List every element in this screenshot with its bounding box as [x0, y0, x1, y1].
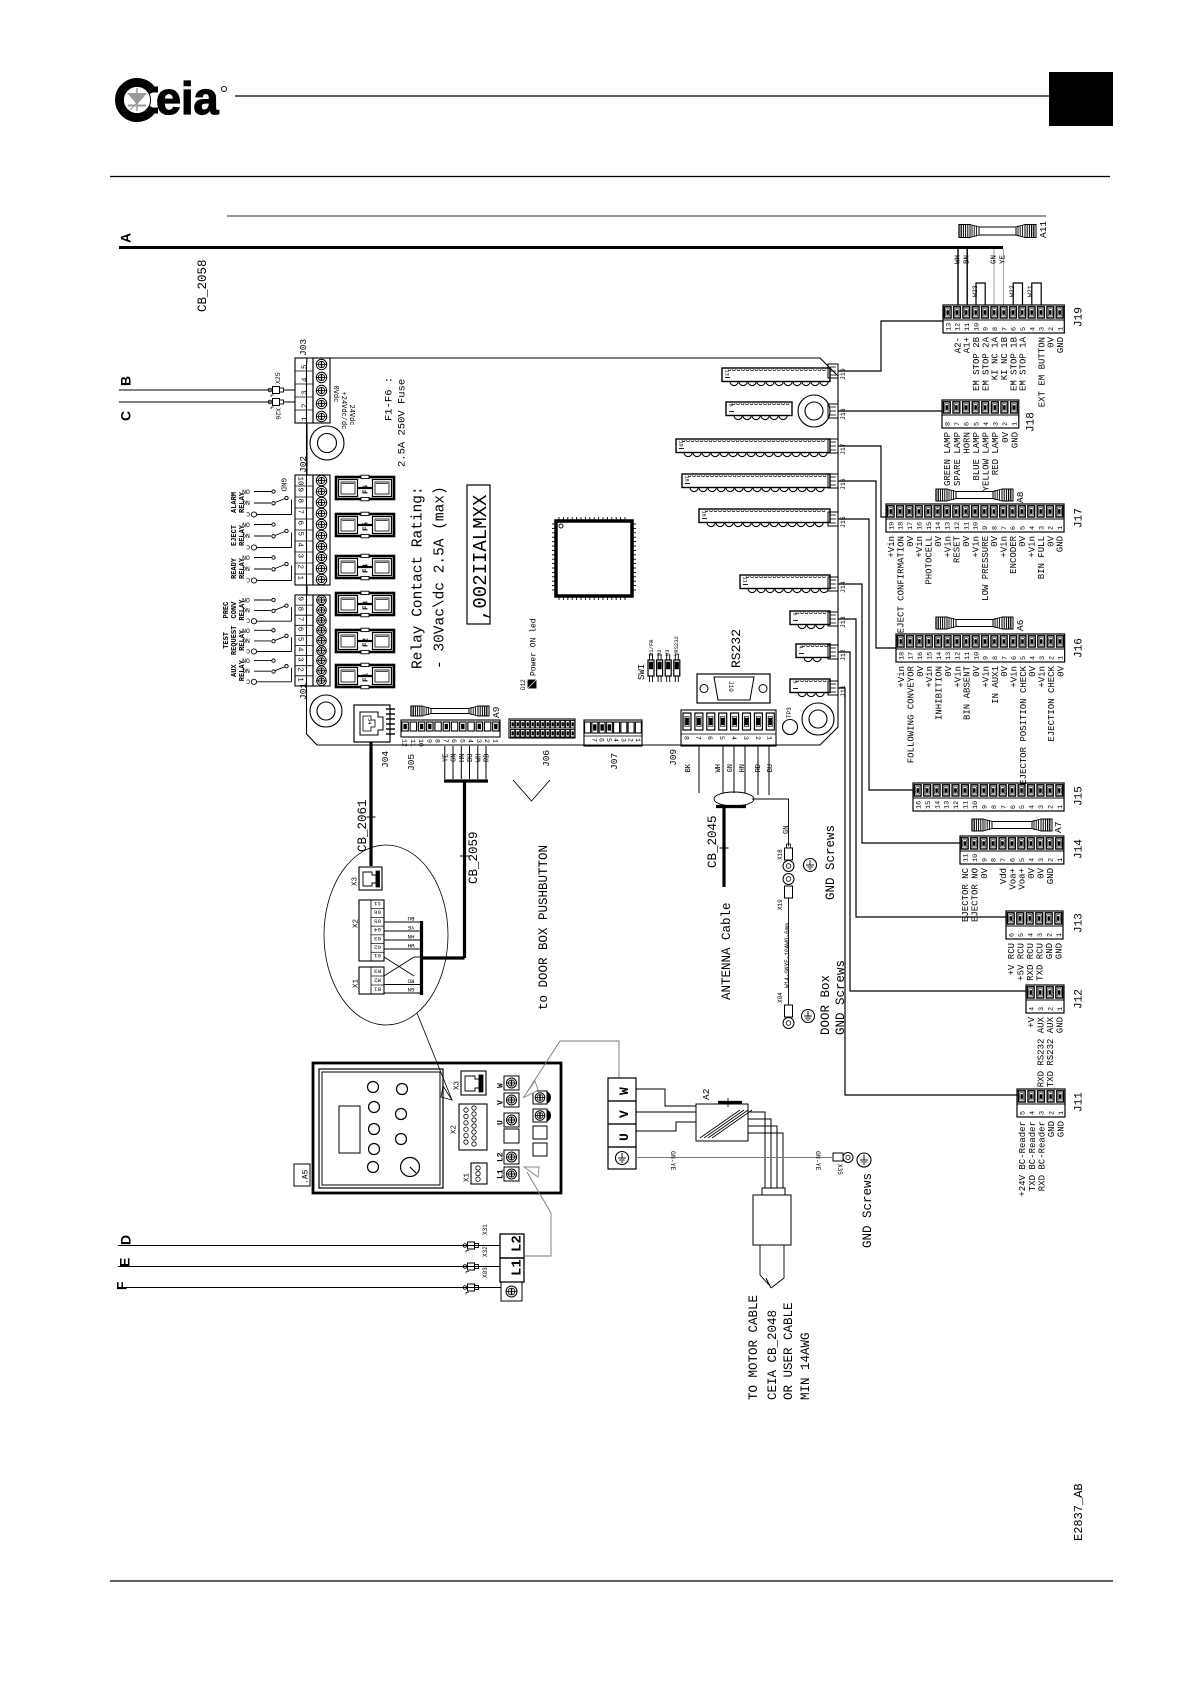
svg-text:V: V: [497, 1100, 506, 1105]
svg-text:RD: RD: [484, 754, 492, 762]
jumper W21: [1027, 283, 1041, 305]
svg-text:9: 9: [296, 597, 304, 602]
svg-text:RXD RCU: RXD RCU: [1026, 943, 1036, 981]
svg-text:2: 2: [754, 736, 761, 740]
wire GN to J19: [990, 249, 998, 305]
svg-text:M2: M2: [656, 649, 663, 656]
board edge tag J18: [828, 404, 847, 420]
svg-text:24Vdc: 24Vdc: [347, 405, 355, 426]
fuse F1: [336, 663, 394, 689]
svg-text:11: 11: [409, 739, 416, 747]
svg-text:1: 1: [296, 576, 304, 581]
wire J02 to J01: [306, 585, 308, 595]
wire BN from bus A to J19: [963, 249, 971, 305]
svg-text:10: 10: [296, 477, 304, 487]
connector X25: [268, 372, 283, 397]
svg-text:18: 18: [898, 522, 906, 530]
svg-text:+V RCU: +V RCU: [1007, 943, 1017, 975]
svg-text:5: 5: [973, 422, 981, 426]
svg-text:3: 3: [992, 422, 1000, 426]
microcontroller chip U1: [552, 517, 636, 600]
svg-text:GND Screws: GND Screws: [861, 1173, 875, 1248]
svg-text:0V: 0V: [1056, 665, 1066, 676]
svg-text:6: 6: [1010, 526, 1018, 530]
svg-text:DOOR Box: DOOR Box: [819, 975, 833, 1035]
svg-text:3: 3: [1039, 1111, 1047, 1115]
svg-text:8: 8: [944, 422, 952, 426]
svg-text:5: 5: [1019, 858, 1027, 862]
svg-text:AUX: AUX: [231, 664, 239, 677]
wire bus to CB_2059: [422, 956, 465, 959]
svg-text:8: 8: [991, 805, 999, 809]
svg-text:HORN: HORN: [962, 432, 972, 454]
connector X26: [268, 399, 283, 420]
connector X1 in ellipse: [352, 967, 384, 994]
svg-text:GN: GN: [407, 986, 414, 993]
connector J13 on-board: [790, 611, 830, 629]
svg-text:L2: L2: [497, 1152, 506, 1162]
wire J16 edge to block: [838, 481, 896, 648]
svg-text:5: 5: [1020, 327, 1028, 331]
connector J07 pin row: [584, 720, 642, 770]
wire B line: [119, 389, 271, 391]
svg-text:RELAY: RELAY: [239, 524, 247, 546]
svg-text:01: 01: [374, 952, 381, 959]
svg-text:+24Vdc/dc: +24Vdc/dc: [339, 392, 347, 430]
svg-text:EJECTOR POSITION CHECK: EJECTOR POSITION CHECK: [1019, 665, 1029, 784]
wire J12 edge to block: [838, 652, 1026, 991]
svg-text:WH: WH: [715, 764, 723, 772]
svg-text:5: 5: [718, 736, 725, 740]
svg-text:J07: J07: [609, 753, 620, 770]
svg-text:1: 1: [1056, 933, 1064, 937]
svg-text:2: 2: [296, 667, 304, 672]
svg-text:WH: WH: [954, 255, 962, 264]
wire J18 edge to block: [838, 410, 942, 412]
svg-text:FOLLOWING CONVEYOR: FOLLOWING CONVEYOR: [906, 665, 916, 763]
plug X32: [463, 1246, 489, 1274]
svg-text:F5: F5: [362, 521, 370, 531]
connector J17 on-board: [676, 439, 830, 457]
svg-text:1: 1: [301, 416, 309, 421]
svg-text:2: 2: [1046, 933, 1054, 937]
svg-text:15: 15: [926, 522, 934, 530]
svg-text:SPARE LAMP: SPARE LAMP: [953, 432, 963, 486]
svg-text:4: 4: [1028, 858, 1036, 862]
svg-text:GN: GN: [783, 826, 791, 834]
svg-text:2: 2: [1048, 805, 1056, 809]
terminal block J03: [295, 339, 330, 423]
svg-text:EJECT: EJECT: [231, 525, 239, 546]
svg-text:J14: J14: [1074, 839, 1086, 859]
wire J11 edge to block: [838, 688, 1017, 1095]
svg-text:+5V RCU: +5V RCU: [1017, 943, 1027, 981]
svg-text:RD: RD: [407, 977, 414, 984]
svg-text:J19: J19: [840, 368, 847, 380]
wires X2 X1 to bus with labels: [384, 915, 421, 993]
svg-text:ALARM: ALARM: [231, 492, 239, 513]
wire J03 to J02: [306, 423, 308, 475]
svg-text:3: 3: [1037, 933, 1045, 937]
svg-text:F: F: [113, 1281, 129, 1290]
wire E line: [118, 1266, 479, 1268]
svg-text:W21: W21: [1027, 285, 1034, 297]
svg-text:- 30Vac\dc 2.5A (max): - 30Vac\dc 2.5A (max): [433, 486, 449, 669]
wire L1L2 to A5: [524, 1172, 551, 1256]
svg-text:RELAY: RELAY: [239, 659, 247, 681]
svg-text:U: U: [617, 1133, 632, 1141]
svg-text:GN-YE: GN-YE: [814, 1151, 821, 1171]
svg-text:2: 2: [1048, 1111, 1056, 1115]
svg-text:A: A: [117, 233, 133, 243]
svg-text:7: 7: [1001, 526, 1009, 530]
svg-text:0V: 0V: [1001, 431, 1011, 442]
connector J18 on-board: [726, 402, 792, 420]
svg-text:4: 4: [296, 647, 304, 652]
ribbon cable A9: [411, 706, 502, 718]
label TO MOTOR CABLE: [747, 1295, 813, 1400]
svg-text:3: 3: [296, 554, 304, 559]
svg-text:1: 1: [491, 739, 498, 743]
svg-text:J09: J09: [668, 749, 679, 766]
svg-text:2: 2: [627, 738, 634, 742]
svg-text:L1: L1: [497, 1169, 506, 1179]
svg-text:15: 15: [926, 652, 934, 660]
svg-text:9: 9: [982, 526, 990, 530]
svg-text:GND: GND: [1045, 943, 1055, 959]
svg-text:5: 5: [1020, 656, 1028, 660]
svg-text:YE: YE: [999, 254, 1007, 264]
svg-text:10: 10: [972, 801, 980, 809]
svg-text:J10: J10: [727, 681, 734, 692]
svg-text:EJECT CONFIRMATION: EJECT CONFIRMATION: [896, 536, 906, 633]
svg-text:06: 06: [374, 909, 381, 916]
svg-text:16: 16: [916, 522, 924, 530]
fuse F3: [336, 591, 394, 617]
svg-text:C: C: [117, 411, 133, 421]
svg-text:Power ON led: Power ON led: [530, 618, 539, 676]
svg-text:GND: GND: [279, 478, 287, 492]
svg-text:4: 4: [1027, 933, 1035, 937]
relay contacts READY RELAY: [231, 553, 291, 583]
svg-text:W22: W22: [1009, 285, 1016, 297]
svg-text:12: 12: [954, 522, 962, 530]
wire C line: [119, 401, 271, 403]
svg-text:11: 11: [963, 522, 971, 530]
svg-text:J11: J11: [840, 685, 847, 697]
connector X2 on A5: [450, 1104, 487, 1150]
terminal strip J17: [886, 504, 1086, 633]
test point TP3: [783, 707, 798, 735]
svg-text:7: 7: [954, 422, 962, 426]
svg-text:14: 14: [935, 522, 943, 530]
gnd screw X18: [777, 844, 794, 872]
svg-text:J03: J03: [298, 339, 309, 356]
svg-text:18: 18: [898, 652, 906, 660]
svg-text:X18: X18: [777, 849, 784, 860]
svg-text:F6: F6: [362, 484, 370, 494]
fuse F4: [336, 554, 394, 580]
svg-text:5: 5: [296, 637, 304, 642]
svg-text:Relay Contact Rating:: Relay Contact Rating:: [411, 486, 427, 669]
wire stub X31 to L2: [479, 1245, 500, 1247]
svg-text:X19: X19: [777, 899, 784, 910]
svg-text:6: 6: [706, 736, 713, 740]
svg-text:GN-YE: GN-YE: [669, 1151, 676, 1171]
connector X3 on A5: [453, 1071, 486, 1095]
terminal strip J19: [943, 305, 1086, 407]
svg-text:13: 13: [944, 801, 952, 809]
mounting hole top right: [798, 395, 830, 427]
svg-text:GND: GND: [1056, 536, 1066, 552]
connector J11 on-board: [790, 679, 830, 697]
svg-text:11: 11: [962, 854, 970, 862]
svg-text:L1: L1: [509, 1259, 525, 1276]
svg-text:W23: W23: [972, 285, 979, 297]
svg-text:OR USER CABLE: OR USER CABLE: [782, 1302, 796, 1400]
terminal block L2: [500, 1234, 525, 1258]
motor cable plug: [753, 1188, 791, 1288]
svg-text:GN: GN: [451, 754, 459, 762]
svg-text:7: 7: [1001, 656, 1009, 660]
terminal strip J12: [1026, 985, 1086, 1087]
svg-text:BLUE LAMP: BLUE LAMP: [972, 432, 982, 481]
svg-text:10: 10: [972, 854, 980, 862]
part number box ,002IIALMXX: [467, 485, 492, 624]
svg-text:4: 4: [301, 377, 309, 382]
svg-text:10: 10: [417, 739, 424, 747]
svg-text:14: 14: [934, 801, 942, 809]
svg-text:GND: GND: [1057, 1121, 1067, 1137]
board edge tag J14: [828, 577, 847, 593]
svg-text:11: 11: [964, 323, 972, 331]
svg-text:J05: J05: [406, 754, 417, 771]
svg-text:0V: 0V: [980, 867, 990, 878]
svg-text:BU: BU: [407, 915, 414, 922]
svg-text:READY: READY: [231, 557, 239, 579]
svg-text:REQUEST: REQUEST: [231, 626, 239, 655]
svg-text:5: 5: [605, 738, 612, 742]
svg-text:HN: HN: [459, 754, 467, 762]
svg-text:SWI: SWI: [637, 664, 647, 680]
svg-text:YE: YE: [443, 754, 451, 762]
svg-text:7: 7: [296, 510, 304, 515]
antenna cable CB_2045: [706, 806, 746, 1000]
svg-text:8: 8: [992, 327, 1000, 331]
svg-text:CB_2061: CB_2061: [356, 799, 370, 852]
connector J19 on-board: [722, 368, 830, 386]
svg-text:0Vdc: 0Vdc: [331, 386, 339, 403]
svg-text:+V: +V: [1027, 1016, 1037, 1027]
sub header rule: [227, 215, 1046, 217]
svg-text:3: 3: [1038, 1007, 1046, 1011]
svg-text:M3: M3: [664, 649, 671, 656]
svg-text:02: 02: [374, 943, 381, 950]
svg-text:X1: X1: [463, 1172, 471, 1182]
svg-text:to DOOR BOX PUSHBUTTON: to DOOR BOX PUSHBUTTON: [537, 845, 551, 1010]
label F1-F6 fuse rating: [383, 377, 408, 467]
svg-text:8: 8: [991, 526, 999, 530]
svg-text:10: 10: [973, 652, 981, 660]
fuse F2: [336, 628, 394, 654]
svg-text:5: 5: [1018, 933, 1026, 937]
svg-text:RELAY: RELAY: [239, 629, 247, 651]
svg-text:2: 2: [483, 739, 490, 743]
board edge tag J17: [828, 439, 847, 455]
svg-text:14: 14: [936, 652, 944, 660]
svg-text:J06: J06: [541, 750, 552, 767]
svg-text:4: 4: [1029, 805, 1037, 809]
terminal strip J13: [1006, 911, 1086, 981]
wire A bus line: [119, 246, 1003, 249]
svg-text:J18: J18: [840, 408, 847, 420]
cable A8: [936, 489, 1026, 503]
svg-text:CB_2059: CB_2059: [467, 831, 481, 884]
svg-text:X25: X25: [275, 372, 282, 384]
terminal block J02: [295, 456, 330, 585]
connector J09 pin row: [668, 710, 776, 766]
bottom page rule: [110, 1580, 1113, 1582]
wire stub X32 to L1: [479, 1266, 500, 1268]
svg-text:J12: J12: [1074, 989, 1086, 1009]
relay contacts PREC CONV RELAY: [223, 596, 291, 624]
LED D12 Power ON: [520, 618, 539, 690]
svg-text:F2: F2: [362, 637, 370, 647]
wire F line: [118, 1287, 479, 1289]
svg-text:2: 2: [296, 565, 304, 570]
board edge tag J16: [828, 474, 847, 490]
svg-text:8: 8: [682, 736, 689, 740]
wires J05 to door box bus YE GN HN BU WH RD: [443, 746, 492, 781]
svg-text:11: 11: [374, 900, 381, 907]
svg-text:2: 2: [1002, 422, 1010, 426]
svg-text:X3: X3: [351, 876, 359, 886]
connector J14 on-board: [740, 575, 830, 593]
svg-text:9: 9: [981, 805, 989, 809]
terminal strip J14: [960, 836, 1086, 922]
svg-text:16: 16: [917, 652, 925, 660]
svg-text:TXD RCU: TXD RCU: [1036, 943, 1046, 981]
fuse F6: [336, 475, 394, 501]
svg-text:GN: GN: [990, 255, 998, 264]
svg-text:4: 4: [1028, 1007, 1036, 1011]
keypad drive unit A5: [313, 1063, 561, 1193]
svg-text:4: 4: [1029, 526, 1037, 530]
svg-text:CB_2058: CB_2058: [196, 259, 210, 312]
svg-text:X32: X32: [482, 1246, 489, 1257]
svg-text:4: 4: [1030, 656, 1038, 660]
svg-text:ANTENNA Cable: ANTENNA Cable: [720, 902, 734, 1000]
svg-text:W14-GNYE-10AWG-6mm: W14-GNYE-10AWG-6mm: [784, 923, 791, 988]
pointer line ellipse to A5: [417, 1013, 452, 1100]
svg-text:RELAY: RELAY: [239, 599, 247, 621]
gnd screw X35: [833, 1153, 853, 1176]
svg-text:9: 9: [983, 327, 991, 331]
CEIA logo: [116, 73, 227, 124]
svg-text:2: 2: [301, 403, 309, 408]
svg-text:15: 15: [925, 801, 933, 809]
svg-text:6: 6: [1011, 327, 1019, 331]
svg-text:1: 1: [1057, 327, 1065, 331]
wire D line: [118, 1245, 479, 1247]
svg-text:W: W: [617, 1087, 632, 1095]
header horizontal rule: [110, 176, 1110, 178]
svg-text:WH: WH: [407, 942, 414, 949]
svg-text:J11: J11: [1074, 1092, 1086, 1112]
connector J12 on-board: [796, 644, 830, 662]
mounting hole bottom right: [802, 703, 834, 735]
svg-text:GND: GND: [1056, 1017, 1066, 1033]
svg-text:6: 6: [450, 739, 457, 743]
svg-text:9: 9: [425, 739, 432, 743]
terminal block J01: [295, 595, 330, 700]
svg-text:E2837_AB: E2837_AB: [1072, 1483, 1086, 1541]
wire YE to J19: [999, 249, 1007, 305]
svg-text:PREC: PREC: [223, 602, 231, 619]
svg-text:GND Screws: GND Screws: [834, 960, 848, 1035]
svg-text:EM STOP 1A: EM STOP 1A: [1019, 336, 1029, 391]
svg-text:X2: X2: [450, 1125, 458, 1134]
svg-text:4: 4: [983, 422, 991, 426]
svg-text:3: 3: [1038, 858, 1046, 862]
svg-text:5: 5: [1019, 805, 1027, 809]
svg-text:TEST: TEST: [223, 632, 231, 649]
svg-text:7: 7: [442, 739, 449, 743]
svg-text:5: 5: [1020, 526, 1028, 530]
svg-text:J16: J16: [840, 478, 847, 490]
wire J17 edge to block: [838, 446, 886, 517]
svg-text:2: 2: [1048, 526, 1056, 530]
svg-text:E: E: [116, 1258, 132, 1267]
svg-text:WH: WH: [476, 754, 484, 762]
svg-text:J15: J15: [1074, 786, 1086, 806]
connector J05 pin row: [401, 720, 500, 771]
svg-text:J17: J17: [840, 443, 847, 455]
label DOOR Box GND Screws: [819, 960, 848, 1035]
svg-text:X31: X31: [482, 1224, 489, 1235]
svg-text:1: 1: [1057, 858, 1065, 862]
svg-text:16: 16: [915, 801, 923, 809]
svg-text:.A5: .A5: [302, 1169, 311, 1184]
svg-text:2: 2: [1047, 858, 1055, 862]
wire J14 edge to block: [838, 584, 960, 843]
svg-text:1: 1: [1058, 656, 1066, 660]
svg-text:M1/FR: M1/FR: [648, 639, 655, 656]
svg-text:R3: R3: [374, 967, 381, 974]
svg-text:YELLOW LAMP: YELLOW LAMP: [982, 432, 992, 491]
svg-text:2: 2: [1048, 656, 1056, 660]
earth symbol near X35: [857, 1153, 871, 1167]
svg-text:8: 8: [434, 739, 441, 743]
board edge tag J19: [828, 364, 847, 380]
svg-text:D12: D12: [520, 679, 527, 690]
earth symbol near X18: [804, 859, 817, 872]
svg-text:4: 4: [1029, 327, 1037, 331]
gnd screw X19: [777, 874, 794, 911]
svg-text:GREEN LAMP: GREEN LAMP: [943, 432, 953, 486]
svg-text:05: 05: [374, 917, 381, 924]
svg-text:J14: J14: [840, 581, 847, 593]
bus bar in ellipse: [420, 921, 423, 995]
svg-text:J13: J13: [1074, 913, 1086, 933]
svg-text:4: 4: [467, 739, 474, 743]
svg-text:B1: B1: [374, 985, 381, 992]
svg-text:1: 1: [1057, 1007, 1065, 1011]
svg-text:J17: J17: [1074, 508, 1086, 528]
svg-text:5: 5: [296, 532, 304, 537]
svg-text:RD: RD: [755, 764, 763, 772]
svg-text:RS232: RS232: [729, 629, 744, 668]
